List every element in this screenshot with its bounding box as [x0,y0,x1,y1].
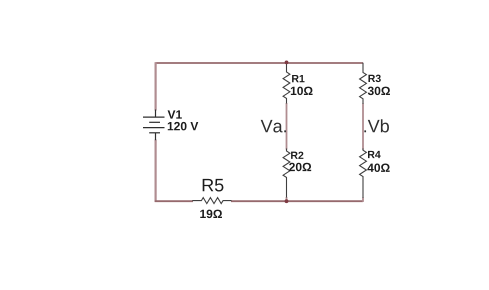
label R3 [368,75,380,82]
label V1 [168,110,182,118]
wire left rail lower [155,140,157,202]
wire bottom node right of R5 [231,200,363,202]
label R1 [292,75,304,82]
label 120 V [168,122,199,131]
junction bottom [285,199,289,203]
wire middle branch R1-R2 [286,103,288,150]
junction top [285,61,289,65]
label R2 [291,152,303,159]
wire top node [156,62,364,64]
label 40 ohm [367,164,389,173]
wire middle branch below R2 [286,197,288,201]
resistor R1 [283,63,290,104]
label 10 ohm [291,87,313,96]
label R5 [203,179,224,192]
resistor R3 [360,63,367,104]
wire right rail R3-R4 [362,104,364,150]
label 30 ohm [368,87,390,96]
wire bottom node left of R5 [155,200,193,202]
node Va label [261,120,286,133]
label 20 ohm [289,163,311,172]
node Vb label [364,119,389,132]
battery V1 [143,110,165,141]
wire left rail upper [155,62,157,110]
resistor R2 [283,149,290,198]
resistor R4 [360,149,367,199]
resistor R5 [192,198,231,204]
wire right rail below R4 [362,198,364,202]
label 19 ohm [200,210,222,219]
label R4 [368,151,381,158]
